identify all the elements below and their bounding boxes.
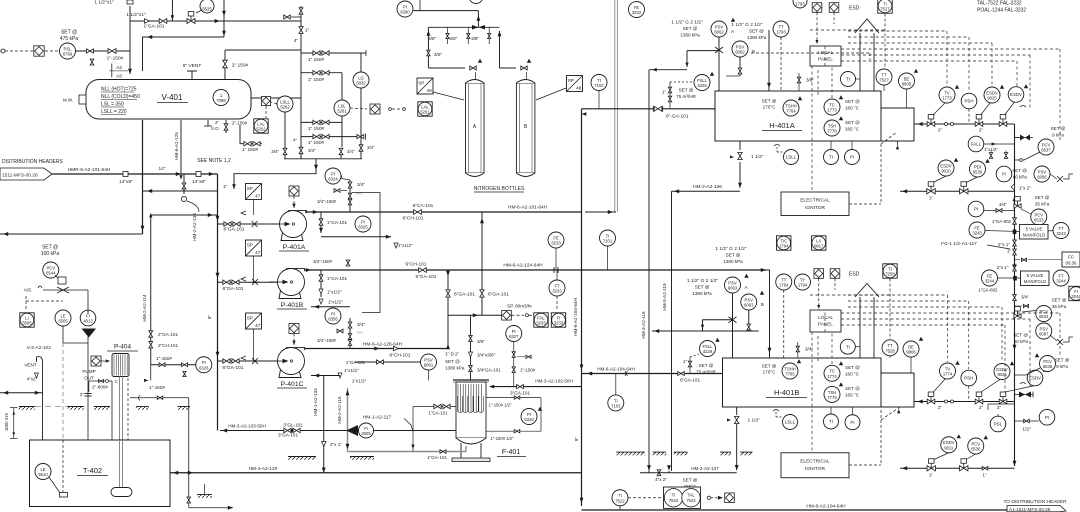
TV-1774 valve (927, 392, 935, 404)
heater B feed entering top (769, 353, 771, 358)
svg-text:2": 2" (80, 392, 85, 397)
heater H-401B (723, 358, 882, 407)
svg-text:47: 47 (255, 194, 261, 199)
svg-text:1511-MFS-00.26: 1511-MFS-00.26 (2, 173, 38, 179)
svg-text:48: 48 (427, 88, 433, 93)
sample point SP 47 (246, 240, 262, 256)
svg-text:1": 1" (662, 90, 667, 95)
svg-text:1 1/2"x1": 1 1/2"x1" (126, 12, 145, 18)
instrument TSH 7778 (824, 120, 840, 136)
ignitor dashed connections (849, 203, 881, 205)
line y191 (143, 190, 218, 192)
riser x323.75 to HM-4 header (323, 376, 325, 473)
svg-text:FC: FC (1068, 255, 1074, 260)
pump C suction branch 6"GA-101 (218, 360, 279, 362)
svg-text:3"GA-101: 3"GA-101 (510, 391, 530, 396)
6 inch vent (191, 71, 193, 80)
double block valve (224, 222, 231, 226)
instrument PSV 6062 (732, 41, 748, 57)
svg-text:6"GA-101: 6"GA-101 (454, 292, 475, 298)
svg-text:SP. 80m3/hr: SP. 80m3/hr (507, 304, 532, 309)
svg-text:5261: 5261 (420, 110, 430, 115)
svg-text:NITROGEN BOTTLES: NITROGEN BOTTLES (474, 186, 525, 192)
svg-text:1"-150#: 1"-150# (520, 368, 536, 373)
instrument TSH 7779 (824, 386, 840, 402)
instrument PCV 6538 (1040, 356, 1056, 372)
instrument FE 3233 (548, 232, 564, 248)
N2 manifold (428, 26, 499, 28)
dashed guide (127, 378, 129, 485)
manifold pipe from PI (414, 10, 479, 12)
instrument TI (824, 150, 839, 165)
svg-text:6096: 6096 (1037, 175, 1047, 180)
svg-text:P-401C: P-401C (280, 381, 303, 388)
svg-text:HM-4-A2-120: HM-4-A2-120 (249, 466, 278, 472)
instrument PI (845, 415, 860, 430)
svg-text:SET @: SET @ (762, 99, 777, 104)
svg-text:PSH: PSH (964, 99, 973, 104)
valve (678, 372, 684, 376)
drain vent at tank (188, 473, 190, 497)
svg-text:2" 150#: 2" 150# (232, 63, 249, 69)
header line HMR-8-A2-101-64H (52, 173, 181, 175)
instrument ESDV 9026 (994, 364, 1010, 380)
F-401 top plate (453, 379, 489, 381)
fuel gas line into heater B (914, 401, 1015, 403)
instrument PSV 6063 (725, 277, 741, 293)
instrument PCV 6533 (1031, 209, 1047, 225)
svg-text:NLL (COLD)=450: NLL (COLD)=450 (101, 94, 140, 100)
svg-text:9026: 9026 (997, 372, 1007, 377)
double block valve (313, 120, 320, 124)
svg-text:PANEL: PANEL (818, 322, 833, 327)
svg-text:8": 8" (574, 437, 579, 442)
instrument PI 6328 (521, 409, 537, 425)
svg-text:TI: TI (829, 419, 833, 424)
F-401 skirt (460, 443, 462, 458)
svg-text:3244: 3244 (1071, 294, 1080, 299)
svg-text:SET @: SET @ (1051, 126, 1066, 131)
spec break flag A2/A3 (109, 70, 128, 72)
svg-text:3/4": 3/4" (357, 322, 365, 327)
svg-text:A/S: A/S (24, 288, 32, 294)
svg-text:9817: 9817 (814, 244, 824, 249)
heater A feed entering top (768, 30, 770, 91)
svg-text:LSLL: LSLL (785, 420, 796, 425)
drain stem (315, 159, 317, 170)
svg-text:HM-2-A2-133: HM-2-A2-133 (192, 213, 197, 241)
pump C small bore (338, 373, 342, 378)
svg-text:100 kPa: 100 kPa (41, 251, 60, 257)
svg-text:47: 47 (255, 323, 261, 328)
check valve (87, 49, 94, 53)
svg-text:1"-150#: 1"-150# (149, 385, 165, 390)
svg-text:3233: 3233 (551, 241, 561, 246)
svg-text:3/4"-150#: 3/4"-150# (317, 199, 336, 204)
pump P-401A (271, 211, 307, 241)
svg-text:SET @: SET @ (699, 363, 714, 368)
svg-text:1794: 1794 (779, 283, 789, 288)
valve (187, 497, 191, 503)
svg-text:1"x1/2": 1"x1/2" (344, 368, 359, 373)
instrument FT 3244 (1053, 270, 1069, 286)
instrument TC 1773 (824, 99, 840, 115)
filter F-401 vessel (456, 382, 486, 438)
PI 6326 line (151, 364, 196, 366)
nitrogen bottle A (466, 80, 485, 177)
svg-text:HMR-8-A2-101-64H: HMR-8-A2-101-64H (68, 167, 111, 173)
shared-display instrument FI 3233 (551, 313, 565, 327)
svg-text:3/8": 3/8" (806, 78, 814, 83)
svg-text:1 1/2" G 2 1/2": 1 1/2" G 2 1/2" (715, 246, 746, 252)
instrument FE 3232 (629, 2, 645, 18)
line from left edge (0, 392, 43, 394)
svg-text:HM-3-A2-118: HM-3-A2-118 (641, 311, 646, 339)
ESDV-9026 valve (975, 392, 983, 404)
grade line (653, 452, 667, 455)
svg-text:7101: 7101 (603, 239, 613, 244)
svg-text:1 1/2" G 2 1/2": 1 1/2" G 2 1/2" (671, 20, 702, 26)
F-401 bottom drain gray (348, 451, 467, 453)
svg-text:SET @: SET @ (683, 26, 698, 31)
vessel bottom nozzle line HM-6-A2-125 (180, 120, 182, 174)
svg-text:1380 kPa: 1380 kPa (445, 366, 465, 371)
dash bundle heater A (841, 48, 1060, 50)
valve (232, 359, 239, 363)
instrument PDI 6535 (970, 161, 986, 177)
logic symbol (370, 104, 380, 114)
svg-text:1"-150#: 1"-150# (107, 56, 124, 62)
bottom distribution header (582, 509, 1008, 511)
svg-text:SET @: SET @ (845, 365, 860, 370)
svg-text:3/4"-150#: 3/4"-150# (313, 259, 332, 264)
instrument TSHH 7764 (783, 100, 799, 116)
svg-text:1": 1" (683, 359, 688, 364)
svg-text:1"-150# 1/2": 1"-150# 1/2" (491, 436, 515, 441)
svg-text:C: C (115, 379, 118, 384)
svg-text:3/8": 3/8" (449, 36, 457, 41)
valve (797, 77, 800, 83)
svg-text:IGNITOR: IGNITOR (805, 466, 825, 472)
svg-text:SET @: SET @ (749, 29, 764, 34)
svg-text:TAL-7522 FAL-3232: TAL-7522 FAL-3232 (977, 1, 1022, 7)
grade line (68, 407, 84, 410)
svg-text:1": 1" (929, 473, 933, 478)
tank T-402 (30, 440, 171, 507)
svg-text:3/4": 3/4" (271, 149, 279, 154)
svg-text:LSL = 350: LSL = 350 (101, 102, 124, 108)
svg-text:1": 1" (1007, 249, 1012, 254)
valve (377, 360, 384, 364)
svg-text:6326: 6326 (199, 365, 209, 370)
ESDV valve (999, 392, 1007, 404)
riser to HM-4 header (188, 398, 190, 473)
pump P-401C (269, 348, 305, 378)
svg-text:6"CH-101: 6"CH-101 (406, 262, 427, 268)
valve (149, 342, 153, 348)
gauge isolation valve (357, 134, 364, 138)
svg-text:FALL: FALL (971, 142, 982, 147)
instrument LSLL 5262 (277, 96, 293, 112)
svg-text:60 kPa: 60 kPa (1014, 339, 1029, 344)
drop line to 1GA valve line (171, 0, 173, 21)
svg-text:TI: TI (846, 344, 850, 349)
shared-display instrument TI 7258 (883, 264, 897, 278)
logic symbol (502, 310, 512, 320)
leader bottle B (536, 88, 566, 100)
valve 1"GA-101 (159, 19, 167, 24)
instrument PI (1039, 409, 1055, 425)
pipe riser to V-401 inlet (129, 6, 131, 74)
svg-text:5510: 5510 (38, 472, 48, 477)
svg-text:SET @: SET @ (42, 245, 58, 251)
valve (1021, 258, 1026, 261)
instrument PI 6356 (325, 308, 341, 324)
svg-text:S.O.: S.O. (211, 126, 220, 131)
svg-text:A2: A2 (116, 65, 122, 71)
svg-text:SET @: SET @ (679, 88, 694, 93)
svg-text:6097: 6097 (1039, 332, 1049, 337)
bypass solid valve B (1015, 394, 1034, 396)
svg-text:ESDV: ESDV (1010, 92, 1022, 97)
valve (747, 324, 751, 330)
svg-text:3/4"GA-101: 3/4"GA-101 (477, 368, 501, 373)
valve (1013, 249, 1017, 255)
check (334, 189, 340, 193)
elbow to vessel top (143, 37, 225, 71)
svg-text:1380 kPa: 1380 kPa (723, 259, 743, 264)
svg-text:1794: 1794 (779, 244, 789, 249)
svg-text:6324: 6324 (328, 177, 338, 182)
header to F-401 y315 (448, 314, 502, 316)
svg-text:OUT: OUT (84, 376, 94, 381)
svg-text:9 kPa: 9 kPa (1052, 133, 1064, 138)
valve (319, 275, 323, 281)
svg-text:7527: 7527 (879, 78, 889, 83)
vessel V-401 (86, 80, 251, 120)
valve 2"150# (223, 60, 228, 68)
local flow indicator FI 4005 (220, 430, 456, 432)
gray riser HM-2-A2-116 (347, 388, 349, 452)
instrument FI 4013 (80, 310, 96, 326)
svg-text:1 1/2" G 2 1/2": 1 1/2" G 2 1/2" (687, 278, 718, 284)
riser from control valve line (223, 0, 225, 37)
svg-text:2"CH-101: 2"CH-101 (158, 343, 178, 348)
svg-text:75 m³/HR: 75 m³/HR (676, 94, 696, 99)
heater B right extension (881, 373, 914, 407)
svg-text:1380 kPa: 1380 kPa (747, 35, 767, 40)
svg-text:3233: 3233 (554, 321, 564, 326)
svg-text:SET @: SET @ (845, 120, 860, 125)
valve (322, 70, 329, 74)
valve (348, 199, 351, 205)
valve (796, 346, 799, 352)
elbow from PSV area to x649 (649, 69, 687, 71)
svg-text:ESDV: ESDV (1029, 376, 1041, 381)
pump B recirc (349, 318, 351, 349)
bridle bottom manifold (284, 158, 362, 160)
svg-text:HM-8-A2-104-64H: HM-8-A2-104-64H (806, 504, 846, 510)
svg-text:TI: TI (672, 493, 676, 498)
svg-text:3/4": 3/4" (347, 149, 355, 154)
sp47 stubs (253, 200, 255, 216)
pump A discharge line (305, 211, 482, 213)
ESDV valve (999, 115, 1007, 127)
svg-text:ELECTRICAL: ELECTRICAL (800, 198, 830, 204)
wire PSL to valve (76, 50, 131, 52)
instrument LE 5510 (35, 464, 51, 480)
instrument PSV 6096 (1034, 166, 1050, 182)
shared-display instrument TI 7527 (878, 0, 892, 13)
valve (299, 27, 303, 34)
svg-text:A3: A3 (116, 74, 122, 80)
svg-text:5505: 5505 (58, 319, 68, 324)
PSV A inlet piping (718, 37, 720, 91)
vent header to pump B (352, 193, 380, 313)
svg-text:3/4": 3/4" (999, 202, 1007, 207)
valve (1013, 240, 1017, 246)
valve (521, 66, 527, 70)
svg-text:1" 150#: 1" 150# (308, 57, 325, 63)
pump A recirc valves (349, 180, 351, 212)
heater A right extension (881, 108, 914, 141)
svg-text:1794: 1794 (798, 283, 808, 288)
svg-text:165 °C: 165 °C (845, 127, 860, 132)
instrument PSL 6766 (60, 43, 76, 59)
valve (467, 33, 470, 38)
svg-text:1" 150#: 1" 150# (308, 140, 325, 146)
svg-text:47: 47 (255, 250, 261, 255)
grade line (94, 407, 110, 410)
svg-text:LOCAL: LOCAL (818, 50, 834, 55)
svg-text:4": 4" (294, 38, 299, 44)
svg-text:6538: 6538 (1043, 364, 1053, 369)
svg-text:9011: 9011 (944, 445, 954, 450)
svg-text:2": 2" (997, 405, 1002, 410)
svg-text:SEE NOTE 1,2: SEE NOTE 1,2 (197, 158, 231, 164)
vertical header HM-3-A2-119 x671.5 (671, 191, 673, 471)
svg-text:4228: 4228 (697, 83, 707, 88)
svg-text:3/8": 3/8" (428, 36, 436, 41)
double block valve (313, 134, 320, 138)
PCV 6544 control valve (43, 289, 88, 291)
reducer (394, 346, 399, 350)
valve (738, 68, 742, 74)
svg-text:SP: SP (418, 81, 424, 86)
ESDV-9010 valve (927, 182, 935, 194)
svg-text:6"CH-101: 6"CH-101 (390, 353, 411, 359)
grade line (197, 495, 212, 498)
off-page connector 1511-MFS-00.26 (0, 168, 52, 180)
manifold 3/8 legs (447, 27, 449, 44)
dashed to LI 5505 (25, 296, 27, 311)
svg-text:HM-3-A2-102-50H: HM-3-A2-102-50H (535, 379, 573, 384)
drain stub w/ PI (179, 175, 182, 179)
instrument LG 5032 (353, 72, 369, 88)
svg-text:SET @: SET @ (61, 30, 77, 36)
svg-text:SP: SP (247, 316, 253, 321)
pump P-401B (269, 269, 305, 299)
HM-2-A2-137 line (640, 472, 737, 474)
junction at header (176, 172, 181, 176)
svg-text:3/8": 3/8" (434, 52, 442, 57)
vessel right lower stub (239, 125, 241, 144)
svg-text:HM-3-A2-119: HM-3-A2-119 (662, 283, 667, 311)
pump A interlock diamond (289, 186, 299, 196)
PSV B inlet (739, 57, 741, 76)
logic symbol (261, 96, 270, 105)
svg-text:5 VALVE: 5 VALVE (1027, 273, 1044, 278)
instrument PSL (990, 416, 1006, 432)
valve (299, 8, 303, 14)
line y306.75 (311, 306, 350, 308)
svg-text:2"GA-101: 2"GA-101 (158, 332, 178, 337)
svg-text:1"x 2": 1"x 2" (1019, 186, 1031, 191)
svg-text:7778: 7778 (827, 129, 837, 134)
svg-text:2": 2" (938, 405, 943, 410)
valve 4"x2" (657, 470, 661, 476)
vessel vent-line (225, 49, 301, 51)
svg-text:6061: 6061 (424, 363, 434, 368)
logic symbol (91, 356, 101, 366)
logic symbol (725, 493, 735, 503)
double block valve (244, 141, 251, 145)
instrument PSV 6062 (711, 21, 727, 37)
instrument TT 7527 (876, 69, 892, 85)
instrument PI (968, 201, 984, 217)
valve (517, 384, 524, 388)
lines to tank (87, 290, 89, 314)
valve (348, 322, 352, 328)
instrument TC 1774 (824, 365, 840, 381)
svg-text:SET @: SET @ (1055, 358, 1070, 363)
svg-text:4005: 4005 (361, 431, 371, 436)
svg-text:6"GA-101: 6"GA-101 (223, 365, 244, 371)
valve (982, 467, 988, 470)
svg-text:HM-2-A2-137: HM-2-A2-137 (691, 466, 719, 471)
svg-text:FG-1 1/2-A1-117: FG-1 1/2-A1-117 (941, 241, 977, 247)
instrument FT 3243 (1053, 223, 1069, 239)
valve (359, 145, 363, 151)
svg-text:35 kPa: 35 kPa (1035, 202, 1050, 207)
svg-text:LOCAL: LOCAL (818, 315, 834, 320)
svg-text:3/4": 3/4" (367, 145, 375, 150)
ignitor B dashed (849, 464, 881, 466)
svg-text:1": 1" (982, 473, 986, 478)
shaft inside tank (119, 440, 121, 488)
pump B misc fittings (320, 270, 322, 297)
svg-text:PI: PI (974, 207, 978, 212)
svg-text:6"GA-101: 6"GA-101 (223, 286, 244, 292)
instrument LE 5505 (55, 310, 71, 326)
svg-text:PI: PI (1002, 172, 1006, 177)
svg-text:6356: 6356 (328, 317, 338, 322)
valve (446, 33, 449, 38)
svg-text:6325: 6325 (358, 225, 368, 230)
svg-text:1380 kPa: 1380 kPa (692, 291, 712, 296)
svg-text:1": 1" (305, 28, 310, 34)
pump B discharge header HM-6-A2-124-64H (305, 269, 766, 271)
svg-text:1"-150#: 1"-150# (156, 356, 172, 361)
svg-text:SET @: SET @ (845, 386, 860, 391)
svg-text:1 1/2": 1 1/2" (748, 418, 761, 424)
svg-text:○○○: ○○○ (356, 191, 363, 195)
valve (232, 280, 239, 284)
double block valve (284, 428, 291, 432)
svg-text:LSLL = 220: LSLL = 220 (101, 109, 127, 115)
svg-text:3/8": 3/8" (477, 339, 485, 344)
valve (1013, 265, 1017, 271)
